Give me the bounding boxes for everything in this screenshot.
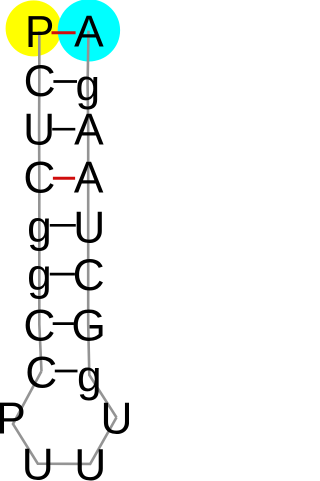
- svg-text:U: U: [74, 441, 106, 481]
- node A20 highlight (3' end, cyan circle): [58, 0, 120, 62]
- svg-text:C: C: [25, 349, 57, 398]
- svg-text:U: U: [22, 441, 54, 481]
- svg-text:U: U: [23, 105, 55, 154]
- svg-text:P: P: [25, 8, 55, 57]
- wire loop U12 up to g13: [88, 31, 117, 418]
- svg-text:A: A: [74, 153, 104, 202]
- svg-text:P: P: [0, 395, 26, 444]
- svg-text:g: g: [77, 352, 102, 401]
- pair bond g6-C15: [50, 273, 75, 276]
- svg-text:g: g: [27, 251, 52, 300]
- wire loop C8-P9-U10-U11-U12: [13, 372, 117, 464]
- svg-text:A: A: [74, 8, 104, 57]
- pair bond C8-g13: [55, 370, 78, 373]
- svg-text:G: G: [71, 301, 105, 350]
- pair bond C7-G14: [53, 322, 74, 325]
- svg-text:C: C: [73, 251, 105, 300]
- svg-text:g: g: [75, 61, 100, 110]
- svg-text:g: g: [27, 203, 52, 252]
- svg-text:U: U: [101, 394, 130, 443]
- svg-text:C: C: [23, 153, 55, 202]
- pair bond C4-A17 (red): [53, 177, 75, 180]
- pair bond P1-A20 (red): [52, 31, 76, 34]
- pair bond C2-g19: [53, 80, 77, 83]
- pair bond g5-U16: [50, 224, 76, 227]
- pair bond U3-A18: [52, 128, 75, 131]
- svg-text:C: C: [23, 301, 55, 350]
- svg-text:C: C: [24, 57, 56, 106]
- svg-text:A: A: [74, 106, 104, 155]
- node P1 highlight (5' end, yellow circle): [6, 0, 62, 56]
- svg-text:U: U: [73, 203, 105, 252]
- wire backbone left side P1-C2-U3-C4-g5-g6-C7-C8: [39, 31, 41, 371]
